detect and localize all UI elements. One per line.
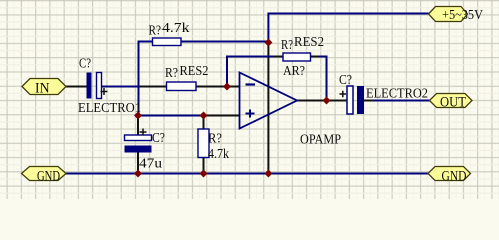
- resistor R2 body (R?RES2 series): [167, 82, 197, 91]
- svg-text:4.7k: 4.7k: [162, 21, 190, 36]
- op-amp minus symbol: [246, 83, 256, 85]
- wire: R4 bottom pin: [203, 158, 205, 174]
- junction dot: bias left: [134, 112, 142, 120]
- svg-text:OUT: OUT: [440, 95, 466, 111]
- svg-text:C?: C?: [79, 57, 91, 72]
- port +5~35V power: [429, 7, 468, 22]
- wire: R1 left vertical down to bias node: [139, 42, 153, 116]
- capacitor C2 plus sign: [140, 129, 147, 136]
- svg-text:R?: R?: [149, 24, 162, 39]
- svg-text:4.7k: 4.7k: [208, 147, 229, 162]
- wire: op-amp output to C3: [297, 100, 348, 102]
- svg-text:OPAMP: OPAMP: [300, 133, 341, 148]
- svg-text:R?: R?: [165, 66, 178, 81]
- junction dot: GND/C2: [134, 170, 142, 178]
- wire: plus input pin: [204, 115, 240, 117]
- resistor R1 body (R?4.7k top): [153, 38, 182, 46]
- junction dot: GND/R4: [200, 170, 208, 178]
- svg-text:RES2: RES2: [180, 64, 209, 79]
- resistor R4 body (R? 4.7k vertical): [198, 129, 209, 158]
- wire: R2 left pin: [140, 86, 167, 88]
- junction dot: output node: [323, 97, 331, 105]
- capacitor C2 outline plate (top): [125, 135, 152, 141]
- op-amp U1 triangle: [240, 73, 298, 129]
- svg-text:47u: 47u: [139, 157, 162, 172]
- svg-text:GND: GND: [442, 169, 467, 185]
- wire: C2 top pin: [137, 116, 139, 136]
- svg-text:C?: C?: [339, 73, 352, 88]
- wire: op-amp V+/V- vertical (power feed down to GND): [267, 43, 269, 174]
- svg-text:IN: IN: [35, 81, 50, 97]
- wire: feedback down to output node: [319, 57, 327, 101]
- capacitor C1 plus sign: [101, 88, 108, 95]
- port IN: [22, 79, 66, 95]
- svg-text:C?: C?: [152, 131, 165, 146]
- wire: R2 right pin to op-amp minus input: [196, 86, 240, 88]
- svg-text:+5~35V: +5~35V: [442, 8, 483, 23]
- junction dot: GND/op-amp V-: [264, 170, 272, 178]
- capacitor C1 outline plate: [97, 73, 102, 99]
- port GND right: [428, 167, 471, 181]
- capacitor C3 outline plate (left): [347, 86, 353, 114]
- svg-text:ELECTRO2: ELECTRO2: [366, 87, 428, 102]
- wire: bias node to plus input: [139, 115, 204, 117]
- svg-text:AR?: AR?: [283, 64, 305, 79]
- capacitor C3 solid plate (right): [357, 86, 364, 114]
- wire: minus node up and right to R3: [227, 57, 273, 87]
- junction dot: bias/R4 top: [200, 112, 208, 120]
- capacitor C3 plus sign: [340, 91, 347, 97]
- wire: C2 bottom pin: [137, 153, 139, 174]
- junction dot: power/R1: [264, 39, 272, 47]
- svg-text:R?: R?: [281, 38, 293, 53]
- wire: +5V top rail: [268, 14, 428, 43]
- op-amp plus symbol: [246, 110, 255, 118]
- capacitor C2 solid plate (bottom): [125, 146, 152, 153]
- wire: R1 right to power node: [181, 41, 268, 43]
- resistor R3 body (R?RES2 feedback): [283, 53, 311, 61]
- junction dot: minus input: [223, 83, 231, 91]
- wire: R3 right pin: [311, 56, 319, 58]
- wire: C3 to OUT port: [374, 100, 430, 102]
- wire: R3 left pin: [273, 56, 283, 58]
- port OUT: [430, 94, 473, 108]
- svg-text:ELECTRO1: ELECTRO1: [78, 101, 141, 116]
- wire: R4 top pin: [203, 116, 205, 130]
- wire: GND rail: [66, 173, 428, 175]
- svg-text:GND: GND: [37, 169, 60, 185]
- wire: IN port to C1: [66, 86, 87, 88]
- wire: C3 right pin: [364, 100, 374, 102]
- wire: C1 to bias vertical: [102, 86, 140, 88]
- svg-text:RES2: RES2: [294, 35, 324, 50]
- svg-text:R?: R?: [208, 132, 222, 147]
- port GND left: [22, 167, 67, 181]
- capacitor C1 solid plate: [87, 73, 92, 99]
